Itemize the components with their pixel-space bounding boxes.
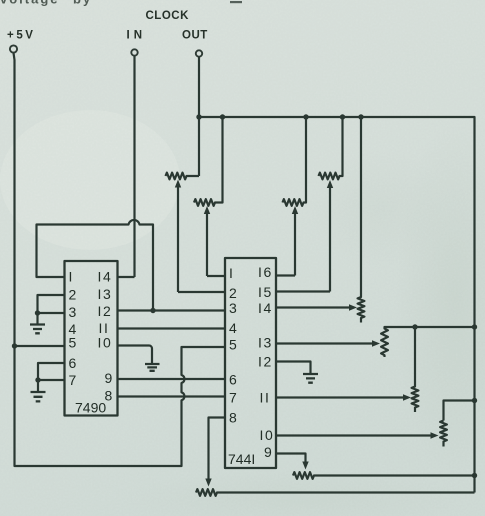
svg-text:8: 8 <box>229 410 237 426</box>
potentiometer R10 wiper arrow from 7441 pin8 <box>209 418 226 480</box>
terminal CLOCK IN <box>131 49 137 55</box>
svg-text:I: I <box>229 265 233 281</box>
node pin12 / pin1-loop junction <box>150 308 155 313</box>
wire 7490 pin5 Vcc tap <box>15 345 65 347</box>
svg-text:I2: I2 <box>98 303 113 319</box>
svg-text:I0: I0 <box>98 335 113 351</box>
potentiometer R4 element and riser to bus <box>319 117 343 179</box>
svg-text:by: by <box>73 0 92 7</box>
wire +5V rail: down left side, bottom run, riser to 7441 pin5 with two hops <box>14 53 226 466</box>
svg-text:I3: I3 <box>258 335 273 351</box>
svg-text:I6: I6 <box>258 264 273 280</box>
potentiometer R9 element and link to right bus <box>293 472 475 479</box>
potentiometer R10 element and bottom link to right bus <box>196 489 475 496</box>
svg-text:I2: I2 <box>258 354 273 370</box>
svg-text:4: 4 <box>229 320 237 336</box>
potentiometer R8 element (vertical) and top link to right bus <box>440 401 474 447</box>
potentiometer R1 wiper arrow to 7441 pin2 <box>177 187 179 293</box>
wire 7490 pin8 to 7441 pin7 <box>118 395 226 397</box>
wire 7490 pin2 to ground junction <box>38 295 65 313</box>
node R9 line / right bus <box>472 473 477 478</box>
svg-text:5: 5 <box>229 337 237 353</box>
potentiometer R6 wiper arrow from 7441 pin13 <box>276 342 373 344</box>
wire 7490 pin11 to 7441 pin4 <box>118 327 226 329</box>
wire OUT lead down to bus and pot R1 top <box>198 57 200 176</box>
node bus/R4 junction <box>340 114 345 119</box>
svg-text:6: 6 <box>229 372 237 388</box>
wire 7490 pin1 feedback loop (hops over IN line, down to pin12 net) <box>37 220 154 311</box>
potentiometer R2 element and riser to bus <box>194 117 223 206</box>
svg-text:744I: 744I <box>228 451 255 467</box>
node pin6/pin7 ground junction <box>35 377 40 382</box>
svg-text:+5V: +5V <box>7 30 36 42</box>
node R6 line / right bus <box>472 324 477 329</box>
node OUT/bus junction <box>196 114 201 119</box>
node +5V / pin5 junction <box>12 343 17 348</box>
wire 7490 pin10 to ground <box>118 346 153 364</box>
svg-text:6: 6 <box>69 355 77 371</box>
svg-text:I4: I4 <box>98 269 113 285</box>
svg-text:9: 9 <box>105 370 113 386</box>
node bus/R5 junction <box>358 114 363 119</box>
wire top distribution bus and right-side bus <box>199 117 475 493</box>
node R8 link / right bus <box>472 398 477 403</box>
ground G1 <box>36 313 38 325</box>
ground G2 <box>37 380 39 392</box>
wire CLOCK IN to 7490 pin14 <box>118 56 135 277</box>
svg-text:I3: I3 <box>98 286 113 302</box>
node bus/R2 junction <box>220 114 225 119</box>
svg-text:2: 2 <box>229 285 237 301</box>
svg-text:5: 5 <box>69 335 77 351</box>
svg-text:I4: I4 <box>258 300 273 316</box>
svg-text:3: 3 <box>69 304 77 320</box>
potentiometer R1 element <box>166 173 200 180</box>
svg-text:II: II <box>260 390 271 406</box>
node R6 line / R7 riser <box>412 324 417 329</box>
ground G3 <box>145 364 160 371</box>
potentiometer R5 wiper arrow from 7441 pin14 <box>276 306 350 308</box>
wire 7490 pin9 to 7441 pin6 <box>118 378 226 380</box>
wire 7441 pin12 to ground <box>276 362 311 374</box>
potentiometer R9 wiper arrow from 7441 pin9 <box>276 454 306 463</box>
potentiometer R4 wiper arrow to 7441 pin15 <box>329 187 331 292</box>
svg-text:IN: IN <box>127 30 147 42</box>
potentiometer R6 element (vertical) and top link to right bus <box>381 327 474 357</box>
wire 7490 pin3 to ground <box>38 312 65 314</box>
terminal +5V <box>10 45 17 52</box>
node pin2/pin3 ground junction <box>35 310 40 315</box>
svg-text:3: 3 <box>229 300 237 316</box>
svg-text:7: 7 <box>229 390 237 406</box>
terminal CLOCK OUT <box>196 50 202 56</box>
svg-text:2: 2 <box>69 287 77 303</box>
wire 7490 pin6 to ground junction <box>38 363 65 380</box>
potentiometer R8 wiper arrow from 7441 pin10 <box>276 434 432 436</box>
svg-text:OUT: OUT <box>182 30 208 42</box>
svg-text:I: I <box>69 269 73 285</box>
node bus/R3 junction <box>303 114 308 119</box>
ground G4 <box>303 374 318 383</box>
svg-text:7490: 7490 <box>75 400 106 416</box>
potentiometer R3 element and riser to bus <box>283 117 307 206</box>
svg-text:9: 9 <box>264 444 272 460</box>
svg-text:7: 7 <box>69 372 77 388</box>
IC U1 7490 body <box>65 261 118 416</box>
IC U2 7441 body <box>225 258 276 468</box>
svg-text:voltage: voltage <box>0 0 60 7</box>
potentiometer R3 wiper arrow to 7441 pin16 <box>294 213 296 276</box>
potentiometer R7 element (vertical) and riser <box>412 327 419 412</box>
svg-text:CLOCK: CLOCK <box>146 10 190 22</box>
potentiometer R2 wiper arrow to 7441 pin1 <box>206 213 208 276</box>
wire 7490 pin7 to ground <box>38 379 65 381</box>
svg-text:I5: I5 <box>258 284 273 300</box>
svg-text:I0: I0 <box>260 427 275 443</box>
wire 7490 pin12 to 7441 pin3 <box>118 309 226 311</box>
potentiometer R5 element (vertical) and riser to bus <box>358 117 365 323</box>
potentiometer R7 wiper arrow from 7441 pin11 <box>276 396 404 398</box>
